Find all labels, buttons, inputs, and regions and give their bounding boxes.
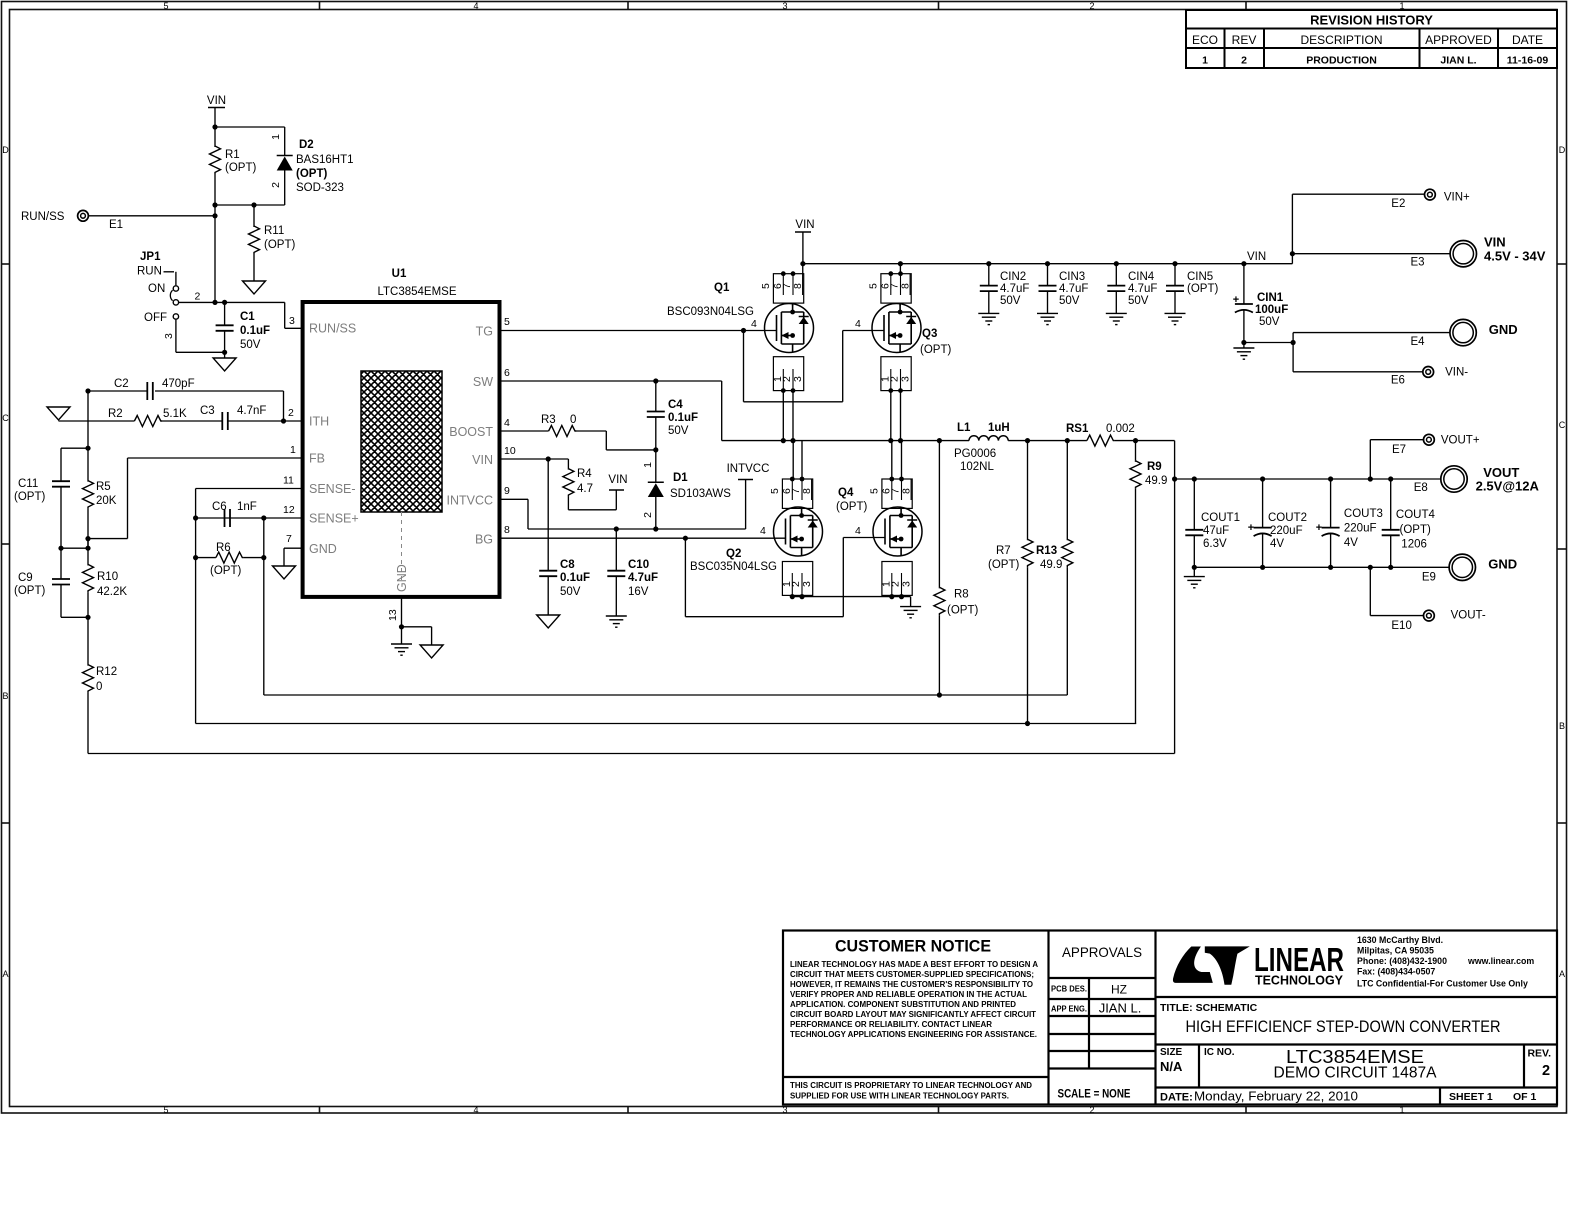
- svg-text:4.7nF: 4.7nF: [237, 405, 266, 417]
- turret E6 VIN-: [1391, 367, 1468, 387]
- svg-text:APPLICATION. COMPONENT SUBSTI: APPLICATION. COMPONENT SUBSTITUTION AND …: [790, 999, 1016, 1009]
- svg-text:3: 3: [782, 1, 787, 11]
- svg-text:(OPT): (OPT): [225, 162, 256, 174]
- svg-text:16V: 16V: [628, 586, 649, 598]
- node divider top junction: [61, 446, 91, 481]
- svg-text:Monday, February 22, 2010: Monday, February 22, 2010: [1194, 1090, 1358, 1104]
- svg-text:THIS CIRCUIT IS PROPRIETARY TO: THIS CIRCUIT IS PROPRIETARY TO LINEAR TE…: [790, 1080, 1032, 1090]
- turret E8 VOUT: [1414, 465, 1540, 494]
- capacitor C6 1nF: [212, 501, 257, 527]
- svg-text:REVISION HISTORY: REVISION HISTORY: [1310, 13, 1433, 28]
- svg-text:(OPT): (OPT): [1187, 283, 1218, 295]
- LT logo: [1173, 946, 1250, 984]
- svg-text:APPROVED: APPROVED: [1425, 33, 1492, 47]
- svg-text:SOD-323: SOD-323: [296, 182, 344, 194]
- svg-text:5: 5: [504, 316, 510, 328]
- capacitor CIN4 4.7uF 50V: [1107, 261, 1157, 313]
- svg-text:C10: C10: [628, 559, 649, 571]
- op-amp U1 LTC3854EMSE body: [303, 268, 500, 597]
- svg-text:(OPT): (OPT): [264, 239, 295, 251]
- turret E1 RUN/SS: [21, 210, 218, 231]
- svg-text:49.9: 49.9: [1145, 475, 1167, 487]
- svg-text:Q1: Q1: [714, 282, 730, 294]
- svg-text:D: D: [2, 145, 9, 155]
- svg-text:E7: E7: [1392, 444, 1406, 456]
- svg-text:C: C: [1559, 420, 1566, 430]
- svg-text:A: A: [2, 969, 8, 979]
- resistor R7 (OPT): [988, 441, 1033, 727]
- svg-text:9: 9: [504, 485, 510, 497]
- capacitor C4 0.1uF 50V: [647, 381, 698, 453]
- svg-text:4: 4: [473, 1, 478, 11]
- svg-text:C1: C1: [240, 311, 255, 323]
- svg-text:50V: 50V: [240, 339, 261, 351]
- svg-text:12: 12: [283, 504, 295, 516]
- svg-text:REV: REV: [1232, 33, 1257, 47]
- svg-text:2: 2: [642, 512, 654, 518]
- ground under R11: [243, 281, 266, 294]
- title block: [783, 931, 1557, 1105]
- svg-text:3: 3: [901, 581, 913, 587]
- svg-text:B: B: [1559, 721, 1565, 731]
- svg-text:BSC035N04LSG: BSC035N04LSG: [690, 561, 777, 573]
- svg-text:JIAN L.: JIAN L.: [1440, 55, 1476, 67]
- resistor R1 (OPT): [210, 146, 257, 205]
- wire VOUT+ bus: [1172, 476, 1441, 481]
- svg-text:4.7uF: 4.7uF: [1128, 283, 1157, 295]
- svg-text:10: 10: [504, 445, 516, 457]
- wire SENSE+ pin12: [193, 504, 303, 695]
- wire ITH gnd stub + ground: [59, 391, 89, 448]
- ground under pin7: [273, 566, 296, 579]
- svg-text:REV.: REV.: [1527, 1048, 1551, 1060]
- svg-text:6: 6: [504, 367, 510, 379]
- wire SENSE- bottom route (line b): [196, 723, 1137, 725]
- svg-text:VIN+: VIN+: [1444, 192, 1470, 204]
- svg-text:Phone: (408)432-1900: Phone: (408)432-1900: [1357, 956, 1447, 966]
- wire SW bus: [722, 438, 969, 443]
- svg-text:5: 5: [869, 488, 881, 494]
- svg-text:47uF: 47uF: [1203, 525, 1229, 537]
- svg-text:INTVCC: INTVCC: [727, 463, 770, 475]
- pin 13 GND pad: [387, 597, 432, 645]
- svg-text:50V: 50V: [1259, 316, 1280, 328]
- svg-text:(OPT): (OPT): [920, 344, 951, 356]
- svg-text:D: D: [1559, 145, 1566, 155]
- svg-text:1206: 1206: [1401, 539, 1427, 551]
- wire to E4/E6: [1291, 333, 1450, 372]
- wire GND pin7: [284, 533, 303, 566]
- svg-text:C6: C6: [212, 501, 227, 513]
- resistor R8 (OPT): [934, 441, 979, 698]
- svg-text:CIN3: CIN3: [1059, 271, 1085, 283]
- svg-text:4: 4: [760, 525, 766, 537]
- ground under C1: [213, 358, 236, 371]
- svg-text:N/A: N/A: [1160, 1059, 1183, 1074]
- svg-text:20K: 20K: [96, 495, 117, 507]
- svg-text:102NL: 102NL: [960, 461, 994, 473]
- svg-text:DESCRIPTION: DESCRIPTION: [1300, 33, 1382, 47]
- svg-text:R3: R3: [541, 414, 556, 426]
- svg-text:6.3V: 6.3V: [1203, 538, 1227, 550]
- node VIN label above Q1: [795, 219, 815, 264]
- svg-text:(OPT): (OPT): [947, 605, 978, 617]
- svg-text:5: 5: [868, 283, 880, 289]
- turret E7 VOUT+: [1392, 434, 1480, 456]
- capacitor C9 (OPT): [14, 548, 88, 617]
- svg-text:VERIFY PROPER AND RELIABLE OPE: VERIFY PROPER AND RELIABLE OPERATION IN …: [790, 989, 1027, 999]
- wire SW pin6: [500, 367, 722, 441]
- svg-text:2: 2: [195, 291, 201, 303]
- resistor R12 0: [83, 665, 118, 754]
- wire ITH pin2: [281, 407, 303, 424]
- svg-text:50V: 50V: [560, 586, 581, 598]
- svg-text:8: 8: [504, 524, 510, 536]
- svg-text:E4: E4: [1411, 336, 1426, 348]
- wire to E7: [1370, 440, 1423, 479]
- capacitor COUT4 (OPT) 1206: [1382, 479, 1436, 567]
- svg-text:8: 8: [792, 283, 804, 289]
- node VIN (top-left power label): [207, 95, 226, 127]
- svg-text:1: 1: [270, 134, 282, 140]
- svg-text:0.1uF: 0.1uF: [668, 412, 698, 424]
- svg-text:Q3: Q3: [922, 328, 937, 340]
- wire BOOST pin4 + resistor R3 0: [500, 414, 656, 450]
- svg-text:BSC093N04LSG: BSC093N04LSG: [667, 306, 754, 318]
- svg-text:4.7uF: 4.7uF: [1059, 283, 1088, 295]
- svg-text:E8: E8: [1414, 482, 1428, 494]
- svg-text:TECHNOLOGY APPLICATIONS ENGINE: TECHNOLOGY APPLICATIONS ENGINEERING FOR …: [790, 1029, 1037, 1039]
- svg-text:2: 2: [270, 182, 282, 188]
- svg-text:100uF: 100uF: [1255, 304, 1288, 316]
- svg-text:BOOST: BOOST: [449, 425, 493, 439]
- svg-text:R13: R13: [1036, 545, 1057, 557]
- svg-text:U1: U1: [392, 268, 407, 280]
- wire TG pin5 to Q1/Q3 gates: [500, 316, 885, 402]
- svg-text:BAS16HT1: BAS16HT1: [296, 154, 354, 166]
- svg-text:BG: BG: [475, 533, 493, 547]
- resistor R2 5.1K + capacitor C3 4.7nF: [88, 405, 284, 430]
- transistor Q4 (OPT): [836, 441, 922, 597]
- wire BG pin8 to Q2/Q4 gates: [500, 524, 886, 617]
- svg-text:220uF: 220uF: [1344, 523, 1377, 535]
- wire VIN node to R1/D2: [212, 124, 284, 146]
- svg-text:R9: R9: [1147, 461, 1162, 473]
- wire R12 to VOUT sense (bottom line c): [88, 753, 1175, 755]
- capacitor CIN1 100uF 50V: [1233, 261, 1293, 348]
- svg-text:1uH: 1uH: [988, 422, 1010, 434]
- svg-text:PRODUCTION: PRODUCTION: [1306, 55, 1377, 67]
- transistor Q3 (OPT): [868, 264, 952, 441]
- wire FB pin1 route: [85, 444, 302, 541]
- wire VIN top bus: [800, 261, 1292, 266]
- svg-text:8: 8: [900, 283, 912, 289]
- svg-text:5: 5: [163, 1105, 168, 1115]
- svg-text:2: 2: [1089, 1105, 1094, 1115]
- svg-text:C2: C2: [114, 378, 129, 390]
- svg-text:R4: R4: [577, 468, 592, 480]
- svg-text:DEMO CIRCUIT 1487A: DEMO CIRCUIT 1487A: [1274, 1065, 1438, 1082]
- svg-text:50V: 50V: [1000, 295, 1021, 307]
- svg-text:+: +: [1248, 522, 1254, 534]
- svg-text:E10: E10: [1391, 620, 1411, 632]
- svg-text:COUT1: COUT1: [1201, 512, 1240, 524]
- diode D1 SD103AWS: [642, 450, 731, 529]
- resistor RS1 0.002: [1025, 423, 1175, 446]
- svg-text:R10: R10: [97, 571, 118, 583]
- svg-text:3: 3: [801, 581, 813, 587]
- resistor R13 49.9: [1036, 441, 1073, 695]
- svg-text:3: 3: [289, 315, 295, 327]
- svg-text:FB: FB: [309, 452, 325, 466]
- svg-text:R8: R8: [954, 589, 969, 601]
- ground under C8: [537, 615, 560, 628]
- resistor R4 4.7: [563, 468, 616, 510]
- turret E9 GND: [1422, 554, 1517, 583]
- svg-text:42.2K: 42.2K: [97, 586, 127, 598]
- diode D2 BAS16HT1: [270, 127, 354, 205]
- svg-text:VIN: VIN: [207, 95, 226, 107]
- svg-text:Fax: (408)434-0507: Fax: (408)434-0507: [1357, 967, 1435, 977]
- svg-text:R11: R11: [264, 225, 284, 237]
- svg-text:JP1: JP1: [140, 251, 161, 263]
- resistor R6 (OPT): [193, 542, 266, 577]
- svg-text:3: 3: [163, 333, 175, 339]
- svg-text:HIGH EFFICIENCF STEP-DOWN CONV: HIGH EFFICIENCF STEP-DOWN CONVERTER: [1186, 1018, 1501, 1036]
- svg-text:R1: R1: [225, 149, 240, 161]
- svg-text:1630 McCarthy Blvd.: 1630 McCarthy Blvd.: [1357, 935, 1443, 945]
- wire SW corner to VOUT bus: [1174, 441, 1176, 754]
- svg-text:0.002: 0.002: [1106, 423, 1135, 435]
- capacitor COUT3 220uF 4V: [1316, 479, 1383, 567]
- svg-text:CIN1: CIN1: [1257, 292, 1284, 304]
- svg-text:INTVCC: INTVCC: [446, 494, 493, 508]
- svg-text:CIN5: CIN5: [1187, 271, 1213, 283]
- svg-text:IC NO.: IC NO.: [1204, 1047, 1235, 1058]
- svg-text:COUT4: COUT4: [1396, 509, 1436, 521]
- capacitor COUT1 47uF 6.3V: [1185, 479, 1240, 567]
- wire VIN pin10 + C8 branch: [500, 445, 569, 469]
- svg-text:4: 4: [751, 318, 757, 330]
- svg-text:RS1: RS1: [1066, 423, 1089, 435]
- svg-text:OF 1: OF 1: [1513, 1091, 1536, 1103]
- svg-text:4V: 4V: [1270, 538, 1284, 550]
- svg-text:R12: R12: [96, 666, 117, 678]
- svg-text:8: 8: [901, 488, 913, 494]
- svg-text:B: B: [2, 691, 8, 701]
- svg-text:(OPT): (OPT): [836, 501, 867, 513]
- svg-text:SENSE+: SENSE+: [309, 512, 359, 526]
- wire SENSE+ bottom route (line a): [264, 694, 1068, 696]
- svg-text:VIN: VIN: [795, 219, 814, 231]
- capacitor C1 0.1uF 50V: [216, 302, 270, 358]
- svg-text:VIN: VIN: [472, 453, 493, 467]
- capacitor C10 4.7uF 16V: [607, 529, 658, 616]
- ground bars under pin13: [391, 644, 412, 655]
- svg-text:E9: E9: [1422, 572, 1436, 584]
- svg-text:(OPT): (OPT): [210, 565, 241, 577]
- svg-text:E2: E2: [1391, 198, 1405, 210]
- svg-text:GND: GND: [309, 542, 337, 556]
- svg-text:50V: 50V: [1128, 295, 1149, 307]
- svg-text:0: 0: [96, 681, 102, 693]
- svg-text:3: 3: [782, 1105, 787, 1115]
- svg-text:4: 4: [855, 525, 861, 537]
- svg-text:50V: 50V: [1059, 295, 1080, 307]
- svg-text:GND: GND: [1489, 322, 1518, 337]
- svg-text:1: 1: [1202, 55, 1208, 67]
- svg-text:(OPT): (OPT): [1400, 524, 1431, 536]
- svg-text:HZ: HZ: [1111, 983, 1127, 997]
- svg-text:(OPT): (OPT): [296, 168, 327, 180]
- svg-text:SENSE-: SENSE-: [309, 482, 356, 496]
- svg-text:470pF: 470pF: [162, 378, 195, 390]
- svg-text:ECO: ECO: [1192, 33, 1218, 47]
- transistor Q2 BSC035N04LSG: [690, 441, 823, 597]
- svg-text:Q2: Q2: [726, 548, 741, 560]
- svg-text:A: A: [1559, 969, 1565, 979]
- svg-text:3: 3: [900, 376, 912, 382]
- svg-text:CUSTOMER NOTICE: CUSTOMER NOTICE: [835, 937, 991, 956]
- turret E10 VOUT-: [1391, 610, 1486, 633]
- svg-text:5: 5: [163, 1, 168, 11]
- svg-text:2: 2: [1241, 55, 1247, 67]
- resistor R11 (OPT): [249, 205, 296, 281]
- svg-text:4.7: 4.7: [577, 483, 593, 495]
- svg-text:SHEET 1: SHEET 1: [1449, 1091, 1493, 1103]
- wire R1 bottom / D2 bottom junction: [212, 202, 284, 302]
- capacitor C11 (OPT): [14, 448, 70, 548]
- svg-text:PERFORMANCE OR RELIABILITY.: PERFORMANCE OR RELIABILITY. CONTACT LINE…: [790, 1019, 993, 1029]
- svg-text:RUN/SS: RUN/SS: [21, 211, 65, 223]
- svg-text:VIN-: VIN-: [1445, 367, 1468, 379]
- svg-text:C4: C4: [668, 399, 683, 411]
- svg-text:PG0006: PG0006: [954, 448, 996, 460]
- svg-text:4.7uF: 4.7uF: [628, 572, 658, 584]
- svg-text:www.linear.com: www.linear.com: [1467, 956, 1534, 966]
- svg-text:VIN: VIN: [608, 474, 627, 486]
- svg-text:E3: E3: [1411, 257, 1425, 269]
- svg-text:8: 8: [801, 488, 813, 494]
- capacitor C2 470pF: [85, 378, 283, 421]
- svg-text:4: 4: [855, 318, 861, 330]
- svg-text:R2: R2: [108, 408, 123, 420]
- turret E4 GND: [1411, 319, 1518, 348]
- svg-text:RUN: RUN: [137, 266, 162, 278]
- capacitor C8 0.1uF 50V: [539, 459, 590, 615]
- turret E3 VIN: [1411, 235, 1546, 269]
- svg-text:SIZE: SIZE: [1160, 1047, 1183, 1058]
- svg-text:7: 7: [286, 533, 292, 545]
- svg-text:(OPT): (OPT): [988, 559, 1019, 571]
- svg-text:4V: 4V: [1344, 537, 1358, 549]
- svg-text:VOUT+: VOUT+: [1441, 435, 1480, 447]
- svg-text:2: 2: [288, 407, 294, 419]
- svg-text:(OPT): (OPT): [14, 585, 45, 597]
- svg-text:LINEAR TECHNOLOGY HAS MADE A B: LINEAR TECHNOLOGY HAS MADE A BEST EFFORT…: [790, 959, 1038, 969]
- svg-text:2: 2: [1542, 1063, 1550, 1079]
- svg-text:VOUT-: VOUT-: [1451, 610, 1486, 622]
- svg-text:OFF: OFF: [144, 312, 167, 324]
- svg-text:0.1uF: 0.1uF: [560, 572, 590, 584]
- svg-text:C: C: [2, 413, 9, 423]
- wire to E2/E3: [1290, 194, 1450, 264]
- svg-text:50V: 50V: [668, 425, 689, 437]
- svg-text:CIN4: CIN4: [1128, 271, 1155, 283]
- ground bars under Q2/Q4 sources: [900, 607, 921, 618]
- svg-text:SD103AWS: SD103AWS: [670, 488, 731, 500]
- svg-text:(OPT): (OPT): [14, 491, 45, 503]
- wire output ground bus: [1192, 565, 1449, 577]
- wire INTVCC pin9 route: [500, 480, 746, 532]
- svg-text:SW: SW: [473, 375, 493, 389]
- svg-text:C8: C8: [560, 559, 575, 571]
- svg-text:1: 1: [1399, 1105, 1404, 1115]
- svg-text:JIAN L.: JIAN L.: [1099, 1001, 1142, 1016]
- svg-text:R6: R6: [216, 542, 231, 554]
- wire RUN/SS node to U1 pin3: [212, 300, 302, 329]
- svg-text:PCB DES.: PCB DES.: [1051, 984, 1087, 994]
- svg-text:13: 13: [387, 609, 399, 621]
- svg-text:VIN: VIN: [1247, 251, 1266, 263]
- svg-text:SUPPLIED FOR USE WITH LINEAR T: SUPPLIED FOR USE WITH LINEAR TECHNOLOGY …: [790, 1091, 1009, 1101]
- capacitor CIN3 4.7uF 50V: [1039, 261, 1089, 313]
- svg-text:5: 5: [769, 488, 781, 494]
- capacitor CIN5 (OPT): [1166, 261, 1218, 313]
- svg-text:DATE: DATE: [1512, 33, 1543, 47]
- capacitor COUT2 220uF 4V: [1248, 479, 1307, 567]
- svg-text:3: 3: [792, 376, 804, 382]
- svg-text:Q4: Q4: [838, 487, 854, 499]
- svg-text:49.9: 49.9: [1040, 559, 1062, 571]
- svg-text:E6: E6: [1391, 375, 1405, 387]
- jumper JP1 RUN: [137, 251, 225, 352]
- svg-text:TITLE: SCHEMATIC: TITLE: SCHEMATIC: [1160, 1002, 1258, 1014]
- svg-text:1: 1: [290, 444, 296, 456]
- resistor R10 42.2K: [83, 564, 128, 664]
- svg-text:RUN/SS: RUN/SS: [309, 322, 356, 336]
- svg-text:L1: L1: [957, 422, 971, 434]
- svg-text:TECHNOLOGY: TECHNOLOGY: [1255, 973, 1343, 988]
- svg-text:D1: D1: [673, 472, 688, 484]
- svg-text:LTC3854EMSE: LTC3854EMSE: [377, 286, 456, 298]
- svg-text:GND: GND: [395, 564, 409, 592]
- svg-text:APPROVALS: APPROVALS: [1062, 944, 1142, 960]
- svg-text:4.5V - 34V: 4.5V - 34V: [1484, 249, 1546, 264]
- svg-text:4: 4: [504, 417, 510, 429]
- inductor L1 1uH: [954, 422, 1087, 473]
- svg-text:1nF: 1nF: [237, 501, 257, 513]
- svg-text:0.1uF: 0.1uF: [240, 325, 270, 337]
- wire Q2/Q4 source rail: [790, 594, 911, 607]
- svg-text:5: 5: [760, 283, 772, 289]
- svg-text:TG: TG: [476, 325, 493, 339]
- svg-text:SCALE = NONE: SCALE = NONE: [1058, 1089, 1131, 1101]
- svg-text:2.5V@12A: 2.5V@12A: [1476, 479, 1540, 494]
- svg-text:DATE:: DATE:: [1160, 1092, 1193, 1104]
- svg-text:R7: R7: [996, 545, 1011, 557]
- svg-text:GND: GND: [1488, 557, 1517, 572]
- revision history table: [1186, 10, 1557, 68]
- svg-text:2: 2: [1089, 1, 1094, 11]
- svg-text:C9: C9: [18, 572, 33, 584]
- resistor R5 20K: [83, 481, 117, 549]
- svg-text:4: 4: [473, 1105, 478, 1115]
- node VIN net label (R4): [608, 474, 627, 493]
- svg-text:COUT3: COUT3: [1344, 508, 1383, 520]
- svg-text:0: 0: [570, 414, 576, 426]
- svg-text:+: +: [1316, 522, 1322, 534]
